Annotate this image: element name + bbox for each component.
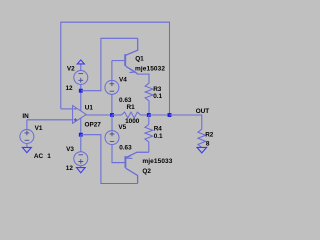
transistor Q2 base wire: [112, 162, 124, 164]
svg-text:OUT: OUT: [196, 108, 210, 115]
wire V5 top stub: [111, 115, 113, 131]
svg-text:IN: IN: [22, 113, 29, 120]
svg-text:V3: V3: [66, 146, 74, 153]
wire V4 bottom stub: [111, 94, 113, 115]
op-amp U1 inverting input mark: [74, 108, 77, 110]
svg-text:mje15032: mje15032: [135, 65, 165, 72]
ground below V3: [77, 168, 86, 173]
junction V2 / op-amp supply / +rail: [79, 89, 83, 93]
wire feedback loop from OUT to inverting input: [61, 22, 170, 115]
wire R3 bottom lead: [148, 101, 150, 115]
op-amp U1 triangle: [73, 106, 87, 124]
svg-text:0.63: 0.63: [119, 97, 132, 104]
svg-text:1: 1: [47, 153, 51, 160]
wire op-amp output: [86, 114, 112, 116]
voltage source V5: [105, 131, 119, 145]
resistor R2: [198, 129, 206, 147]
junction op-amp output / V4 / V5 / R1: [110, 113, 114, 117]
svg-text:R1: R1: [127, 104, 136, 111]
transistor Q2 emitter arrow: [126, 155, 132, 158]
svg-text:Q2: Q2: [142, 168, 151, 175]
wire inverting input stub: [61, 108, 73, 110]
svg-text:mje15033: mje15033: [142, 158, 172, 165]
resistor R1 left lead: [112, 114, 121, 116]
svg-text:R2: R2: [205, 131, 214, 138]
svg-text:V5: V5: [118, 124, 126, 131]
svg-text:0.63: 0.63: [119, 144, 132, 151]
svg-text:8: 8: [206, 141, 210, 148]
transistor Q2 base bar: [124, 156, 126, 168]
wire IN to non-inverting input: [27, 119, 73, 121]
svg-text:0.1: 0.1: [153, 93, 162, 100]
op-amp U1 positive supply pin: [80, 91, 82, 111]
wire negative rail to Q2 collector: [81, 135, 138, 184]
transistor Q1 collector: [126, 38, 138, 55]
ground flag above V2: [77, 60, 84, 64]
resistor R1 right lead: [141, 114, 149, 116]
junction OUT / feedback: [168, 113, 172, 117]
transistor Q1 emitter arrow: [129, 69, 135, 73]
wire V2 bottom stub: [80, 85, 82, 91]
voltage source V1: [20, 130, 34, 144]
wire R4 bottom lead: [148, 142, 150, 152]
resistor R3: [145, 83, 153, 101]
svg-text:12: 12: [66, 85, 74, 92]
voltage source V3: [74, 152, 88, 166]
transistor Q1 base bar: [124, 54, 126, 66]
svg-text:OP27: OP27: [85, 121, 102, 128]
wire V5 bottom to Q2 base: [112, 145, 124, 163]
svg-text:Q1: Q1: [135, 55, 144, 62]
svg-text:0.1: 0.1: [154, 133, 163, 140]
wire to OUT node: [149, 114, 170, 116]
transistor Q2 emitter: [126, 152, 149, 158]
svg-text:V2: V2: [67, 65, 75, 72]
voltage source V2: [74, 71, 88, 85]
resistor R1: [121, 112, 140, 118]
wire OUT to R2: [170, 115, 202, 129]
op-amp U1 non-inverting input mark: [74, 118, 77, 121]
wire V3 bottom stub: [80, 166, 82, 168]
voltage source V4: [105, 80, 119, 94]
svg-text:U1: U1: [85, 105, 94, 112]
junction V3 / op-amp supply / -rail: [79, 133, 83, 137]
junction R1 / R3 / R4: [147, 113, 151, 117]
wire positive rail to Q1 collector: [81, 38, 138, 90]
svg-text:R3: R3: [153, 86, 162, 93]
wire Q1 emitter to R3: [137, 74, 149, 83]
wire V1 bottom stub: [26, 144, 28, 148]
ground below R2: [197, 147, 207, 153]
ground below V1: [22, 147, 31, 152]
svg-text:V4: V4: [119, 76, 127, 83]
wire V1 top stub: [26, 120, 28, 130]
wire V4 top to Q1 base: [111, 61, 113, 81]
svg-text:12: 12: [66, 165, 74, 172]
transistor Q1 base wire: [112, 60, 124, 62]
svg-text:R4: R4: [154, 126, 163, 133]
wire V3 top stub: [80, 135, 82, 152]
resistor R4: [145, 124, 153, 141]
op-amp U1 negative supply pin: [80, 118, 82, 135]
wire V2 top stub: [80, 64, 82, 71]
svg-text:AC: AC: [34, 153, 44, 160]
svg-text:1000: 1000: [125, 118, 140, 125]
transistor Q2 collector: [126, 168, 138, 183]
resistor R4 top lead: [148, 115, 150, 124]
transistor Q1 emitter: [126, 66, 137, 74]
svg-text:V1: V1: [35, 125, 43, 132]
